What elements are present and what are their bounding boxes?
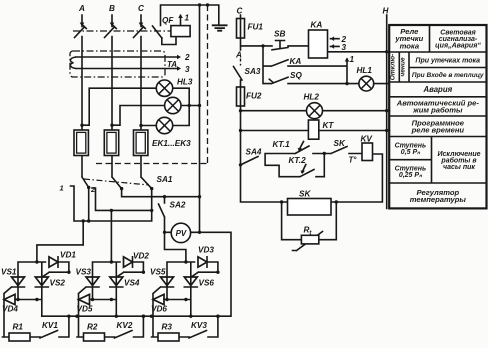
svg-text:KT.2: KT.2: [289, 156, 307, 165]
svg-text:2: 2: [90, 185, 96, 194]
svg-text:VD3: VD3: [198, 246, 214, 255]
svg-text:Отклю-: Отклю-: [390, 54, 397, 81]
svg-text:R3: R3: [162, 323, 173, 332]
svg-text:PV: PV: [176, 229, 187, 238]
svg-text:Авария: Авария: [422, 85, 452, 94]
svg-text:VS5: VS5: [150, 268, 166, 277]
svg-text:KA: KA: [311, 21, 323, 30]
svg-text:EK1...EK3: EK1...EK3: [152, 139, 191, 148]
svg-text:0,5 Рₙ: 0,5 Рₙ: [401, 149, 421, 156]
svg-text:HL2: HL2: [304, 93, 320, 102]
svg-text:VD4: VD4: [2, 305, 18, 314]
svg-text:KV3: KV3: [191, 321, 207, 330]
svg-text:HL3: HL3: [177, 78, 193, 87]
svg-text:SA2: SA2: [170, 201, 186, 210]
svg-text:чение: чение: [399, 57, 406, 77]
svg-text:VD1: VD1: [60, 251, 76, 260]
svg-text:VS1: VS1: [1, 268, 17, 277]
svg-text:A: A: [78, 4, 85, 13]
svg-text:KT: KT: [323, 121, 335, 130]
svg-text:3: 3: [342, 43, 347, 52]
svg-text:VS2: VS2: [50, 279, 66, 288]
svg-text:часы пик: часы пик: [443, 164, 475, 171]
svg-text:A: A: [235, 51, 242, 60]
svg-text:KV2: KV2: [117, 321, 133, 330]
svg-text:SA3: SA3: [245, 67, 261, 76]
svg-text:VS6: VS6: [199, 279, 215, 288]
svg-text:ция„Авария“: ция„Авария“: [435, 43, 481, 50]
svg-text:При Входе в теплицу: При Входе в теплицу: [412, 71, 484, 79]
svg-text:1: 1: [60, 184, 64, 193]
svg-text:TA: TA: [167, 60, 177, 69]
svg-text:VS4: VS4: [124, 279, 140, 288]
svg-text:KV: KV: [361, 135, 374, 144]
svg-text:R1: R1: [13, 323, 24, 332]
svg-text:тока: тока: [400, 41, 419, 50]
svg-text:KV1: KV1: [42, 321, 58, 330]
svg-text:При утечках тока: При утечках тока: [415, 57, 480, 64]
svg-text:SA4: SA4: [246, 148, 262, 157]
svg-text:SQ: SQ: [290, 71, 302, 80]
svg-text:SA1: SA1: [157, 175, 173, 184]
svg-text:3: 3: [185, 65, 190, 74]
svg-text:VD2: VD2: [133, 252, 149, 261]
svg-text:HL1: HL1: [357, 66, 373, 75]
svg-text:1: 1: [185, 14, 190, 23]
svg-text:реле времени: реле времени: [411, 126, 465, 135]
svg-text:VD6: VD6: [151, 305, 167, 314]
svg-text:SB: SB: [274, 30, 285, 39]
svg-text:0,25 Рₙ: 0,25 Рₙ: [399, 172, 423, 179]
svg-text:B: B: [109, 4, 115, 13]
svg-text:VD5: VD5: [77, 305, 93, 314]
svg-text:SK: SK: [299, 190, 311, 199]
svg-text:R2: R2: [87, 323, 98, 332]
svg-text:FU2: FU2: [246, 92, 262, 101]
svg-text:2: 2: [184, 53, 190, 62]
svg-text:FU1: FU1: [248, 23, 264, 32]
svg-text:KT.1: KT.1: [273, 140, 291, 149]
svg-text:жим работы: жим работы: [412, 106, 463, 115]
svg-text:температуры: температуры: [410, 195, 467, 204]
svg-text:1: 1: [350, 55, 355, 64]
svg-text:VS3: VS3: [76, 268, 92, 277]
svg-text:QF: QF: [162, 16, 174, 25]
svg-text:KA: KA: [290, 57, 302, 66]
svg-text:T°: T°: [349, 156, 358, 165]
svg-text:SK: SK: [334, 139, 346, 148]
